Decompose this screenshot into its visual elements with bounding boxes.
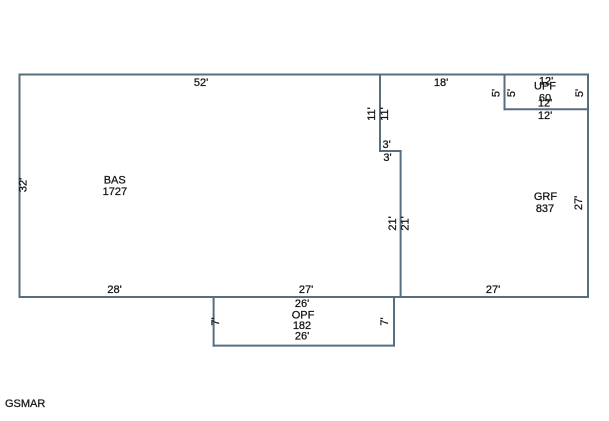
svg-text:21': 21' bbox=[400, 216, 412, 230]
wall UPF left bbox=[504, 75, 506, 110]
svg-text:27': 27' bbox=[573, 196, 585, 210]
svg-text:11': 11' bbox=[366, 107, 378, 121]
wall right edge bbox=[587, 75, 589, 298]
svg-text:27': 27' bbox=[486, 284, 500, 296]
svg-text:7': 7' bbox=[379, 317, 391, 325]
svg-text:18': 18' bbox=[434, 77, 448, 89]
svg-text:5': 5' bbox=[506, 89, 518, 97]
svg-text:GRF: GRF bbox=[534, 191, 558, 203]
svg-text:26': 26' bbox=[295, 298, 309, 310]
svg-text:5': 5' bbox=[491, 89, 503, 97]
svg-text:3': 3' bbox=[383, 152, 391, 164]
wall partition upper (BAS/GRF) bbox=[379, 75, 381, 152]
wall left edge bbox=[19, 75, 21, 298]
svg-text:5': 5' bbox=[574, 89, 586, 97]
svg-text:52': 52' bbox=[194, 77, 208, 89]
svg-text:21': 21' bbox=[387, 216, 399, 230]
svg-text:26': 26' bbox=[295, 330, 309, 342]
wall top edge bbox=[20, 74, 589, 76]
wall partition lower (BAS/GRF) bbox=[400, 151, 402, 297]
wall OPF right bbox=[393, 297, 395, 346]
svg-text:1727: 1727 bbox=[103, 186, 127, 198]
svg-text:3': 3' bbox=[382, 139, 390, 151]
wall OPF left bbox=[213, 297, 215, 346]
wall jog 3ft bbox=[380, 150, 401, 152]
svg-text:12': 12' bbox=[538, 110, 552, 122]
svg-text:UPF: UPF bbox=[534, 80, 556, 92]
svg-text:GSMAR: GSMAR bbox=[5, 398, 45, 410]
svg-text:BAS: BAS bbox=[104, 174, 126, 186]
svg-text:28': 28' bbox=[107, 284, 121, 296]
svg-text:12': 12' bbox=[538, 97, 552, 109]
svg-text:32': 32' bbox=[18, 178, 30, 192]
svg-text:11': 11' bbox=[379, 107, 391, 121]
wall UPF bottom bbox=[505, 108, 589, 110]
svg-text:837: 837 bbox=[536, 203, 554, 215]
wall OPF bottom bbox=[214, 345, 394, 347]
wall bottom edge bbox=[20, 296, 589, 298]
svg-text:27': 27' bbox=[299, 284, 313, 296]
svg-text:7': 7' bbox=[210, 317, 222, 325]
